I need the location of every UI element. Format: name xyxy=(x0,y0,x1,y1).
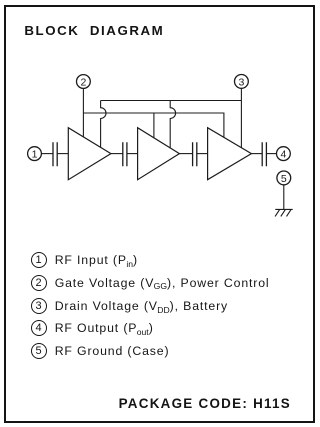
wire: VGG drop to amp2 gate xyxy=(153,113,155,138)
legend pin 4: RF Output xyxy=(31,320,154,336)
pin 5 terminal circle (RF ground) xyxy=(277,171,291,185)
op-amp A1 (first amplifier stage) xyxy=(68,128,111,180)
svg-text:2: 2 xyxy=(80,76,86,88)
svg-text:3: 3 xyxy=(238,76,244,88)
wire: C1 to amp1 input xyxy=(57,153,68,155)
svg-text:4: 4 xyxy=(280,149,286,161)
capacitor C3 (interstage DC block) xyxy=(193,142,197,166)
capacitor C4 (output DC block) xyxy=(262,142,266,166)
wire: C3 to amp3 input xyxy=(197,153,208,155)
package code label xyxy=(119,397,291,410)
wire: C2 to amp2 input xyxy=(127,153,138,155)
svg-text:5: 5 xyxy=(281,173,287,185)
wire: VDD rail horizontal xyxy=(101,100,242,102)
legend pin 2: Gate Voltage xyxy=(31,275,270,291)
wire: pin 5 stem down to ground xyxy=(283,185,285,210)
svg-text:1: 1 xyxy=(32,149,38,161)
legend pin 5: RF Ground xyxy=(31,343,170,359)
op-amp A2 (second amplifier stage) xyxy=(138,128,180,180)
legend pin 1: RF Input xyxy=(31,252,138,268)
ground (chassis) xyxy=(275,209,293,216)
wire: pin 1 to C1 xyxy=(41,153,53,155)
title BLOCK DIAGRAM xyxy=(24,24,164,37)
op-amp A3 (third amplifier stage) xyxy=(208,128,252,180)
wire: amp1 output to C2 xyxy=(111,153,123,155)
pin 1 terminal circle (RF input) xyxy=(28,147,42,161)
wire: C4 to pin 4 xyxy=(266,153,276,155)
wire: amp3 output to C4 xyxy=(251,153,262,155)
pin 4 terminal circle (RF output) xyxy=(277,147,291,161)
capacitor C1 (input DC block) xyxy=(53,142,57,166)
wire: VGG rail horizontal with corner down to amp3 gate xyxy=(83,113,224,137)
wire: pin 2 stem down to amp1 gate xyxy=(82,89,84,137)
legend pin 3: Drain Voltage xyxy=(31,298,228,314)
wire: pin 3 stem down to amp3 drain xyxy=(240,88,242,148)
wire: amp2 output to C3 xyxy=(179,153,192,155)
pin 3 terminal circle (VDD) xyxy=(235,75,249,89)
wire: VDD drop to amp1 drain with crossover hop xyxy=(101,101,106,148)
wire: VDD drop to amp2 drain with crossover hop xyxy=(170,101,175,148)
pin 2 terminal circle (VGG) xyxy=(77,75,91,89)
capacitor C2 (interstage DC block) xyxy=(123,142,127,166)
